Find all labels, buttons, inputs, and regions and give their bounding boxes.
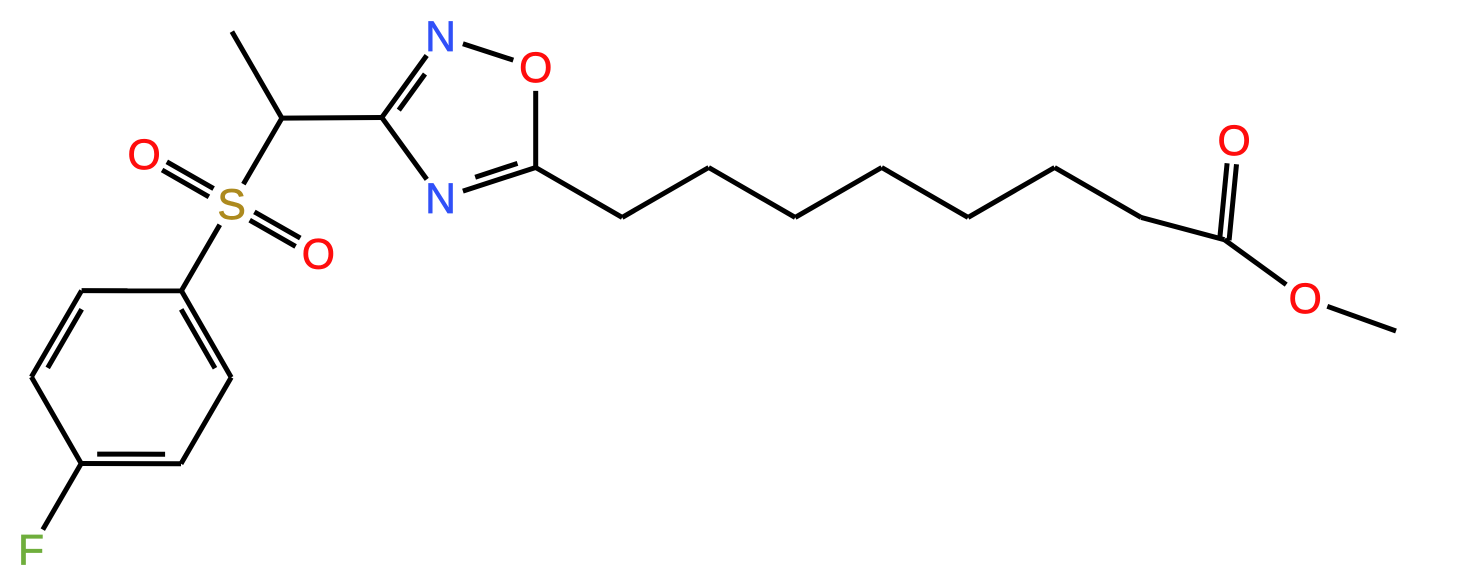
bond CH3-CH (methyl) — [232, 32, 282, 119]
double bond N4=C5 (oxadiazole) — [463, 168, 536, 192]
chain bond CH2-CH2 (1) — [622, 168, 709, 218]
double bond benzene C5=C6 — [31, 291, 81, 377]
bond C-O (ester) — [1224, 240, 1286, 285]
double bond benzene C1=C2 — [181, 291, 231, 378]
bond O-CH3 (ester methyl) — [1327, 306, 1396, 331]
bond C5-CH2 — [536, 168, 623, 218]
svg-text:S: S — [217, 181, 245, 229]
chain bond CH2-CH2 (2) — [709, 168, 796, 218]
svg-text:O: O — [519, 44, 552, 92]
chain bond CH2-CH2 (5) — [968, 168, 1055, 218]
svg-text:N: N — [425, 13, 456, 61]
bond N2-O1 (oxadiazole) — [463, 44, 513, 60]
bond benzene C4-C5 — [31, 377, 81, 464]
double bond benzene C3=C4 — [81, 461, 181, 466]
svg-text:O: O — [1289, 275, 1322, 323]
bond CH-S — [243, 118, 282, 184]
chain bond CH2-CH2 (4) — [882, 168, 968, 218]
bond C3-N4 (oxadiazole) — [382, 118, 427, 180]
svg-text:O: O — [1217, 117, 1250, 165]
svg-text:N: N — [425, 175, 456, 223]
double bond C3=N2 (oxadiazole) — [382, 56, 427, 118]
bond CH2-C(=O) — [1141, 217, 1224, 239]
svg-text:F: F — [18, 527, 44, 575]
chain bond CH2-CH2 (6) — [1055, 168, 1142, 218]
double bond S=O upper — [162, 170, 209, 197]
bond benzene C2-C3 — [181, 377, 231, 463]
bond benzene C6-C1 — [82, 288, 182, 293]
svg-text:O: O — [302, 231, 335, 279]
bond S-C(ipso) — [181, 225, 219, 291]
double bond C=O (ester carbonyl) — [1220, 163, 1227, 239]
double bond S=O lower — [254, 212, 300, 238]
bond CH-C3 — [282, 115, 382, 121]
svg-text:O: O — [127, 131, 160, 179]
bond C4-F — [43, 464, 81, 530]
chain bond CH2-CH2 (3) — [795, 168, 882, 218]
bond O1-C5 (oxadiazole) — [533, 91, 538, 168]
